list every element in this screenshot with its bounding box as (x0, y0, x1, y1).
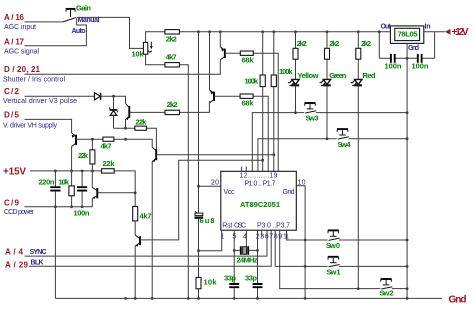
wire +5V rail from trimmer top to 78L05 Out (146, 32, 391, 43)
svg-text:D / 5: D / 5 (4, 111, 20, 120)
junction at (220.3,31.8) (219, 30, 222, 33)
switch Sw4 (337, 129, 351, 149)
resistor R-100k right pull-up (271, 32, 293, 172)
svg-text:100n: 100n (385, 62, 402, 71)
wire C/9 line to Q5 emitter (25, 198, 93, 207)
resistor R-100k left pull-up (245, 32, 266, 172)
svg-text:Gnd: Gnd (449, 295, 467, 306)
resistor R-2k2 green (325, 32, 340, 80)
svg-text:100k: 100k (245, 77, 259, 86)
switch S-Gain lever (63, 18, 76, 22)
svg-text:100n: 100n (74, 209, 90, 218)
LED green (319, 71, 347, 139)
transistor Q5 (92, 171, 135, 199)
junction at (407.1,298.4) (406, 297, 409, 300)
resistor R-10k 15V (59, 171, 75, 207)
wire Sw3 line from MCU P1.0 to gnd column (252, 113, 407, 172)
pin 20 stub to Vcc column (199, 185, 221, 187)
junction at (234.2,250.4) (233, 249, 236, 252)
svg-text:Yellow: Yellow (298, 71, 319, 80)
transistor Q2 (210, 32, 215, 103)
wire trimmer bottom to 4k7 line and down to ground (146, 54, 189, 298)
svg-text:Out: Out (381, 24, 392, 31)
junction at (358.3,31.8) (357, 30, 360, 33)
junction at (125.5,128.2) (124, 127, 127, 130)
capacitor C-220n (39, 171, 61, 299)
svg-text:33p: 33p (245, 274, 257, 283)
wire A/17 lead (25, 45, 87, 47)
pin 10 lead down to ground (296, 186, 305, 299)
resistor R-22k mid (135, 118, 147, 131)
wire Sw0 row from pin 11 to gnd column (287, 230, 408, 240)
svg-text:2k2: 2k2 (329, 39, 339, 48)
svg-text:10k: 10k (132, 50, 145, 59)
svg-text:7: 7 (269, 234, 273, 241)
transistor Q3 (126, 103, 130, 128)
junction at (152.2,298.4) (151, 297, 154, 300)
junction at (198.5,186.3) (197, 185, 200, 188)
pin 4 stub to crystal (245, 230, 247, 246)
transistor QA (72, 133, 76, 171)
wire QA base line with 4k7 to Q3 emitter node (76, 139, 152, 147)
svg-text:12 .........19: 12 .........19 (240, 173, 278, 180)
capacitor C-100n a (385, 54, 402, 71)
wire SYNC line to MCU pin 3 (25, 230, 268, 256)
svg-text:68k: 68k (242, 99, 255, 108)
capacitor C-6u8 (195, 211, 215, 225)
svg-text:Rst: Rst (222, 223, 232, 230)
switch Sw2 (380, 279, 394, 298)
svg-text:In: In (425, 24, 431, 31)
svg-text:Green: Green (329, 71, 346, 80)
resistor R-10k reset (196, 277, 217, 288)
junction at (305.1,240) (304, 239, 307, 242)
wire Q6 base line up and over to MCU column (140, 160, 263, 240)
resistor R-4k7 h (101, 137, 114, 150)
junction at (198.5,298.4) (197, 297, 200, 300)
wire Sw1 row from pin 9 to gnd column (275, 230, 407, 266)
resistor R-4k7 vertical (133, 206, 152, 221)
svg-text:Sw 0: Sw 0 (326, 241, 340, 250)
svg-text:1: 1 (221, 234, 225, 241)
capacitor C-33p right (245, 274, 263, 288)
junction at (198.5,31.8) (197, 30, 200, 33)
svg-text:4k7: 4k7 (140, 212, 152, 221)
svg-text:22k: 22k (135, 118, 147, 127)
wire Q1 base line with 68k to MCU column (225, 53, 278, 171)
svg-text:2k2: 2k2 (297, 39, 307, 48)
pin 3 stub (261, 230, 263, 237)
wire 78L05 decoupling row (379, 32, 434, 59)
junction at (305.1,266.4) (304, 265, 307, 268)
wire Q3 base line with 2k2 to Q2 collector (130, 101, 210, 112)
wire crystal row (234, 249, 257, 251)
junction at (55.4,206.8) (54, 205, 57, 208)
svg-text:8: 8 (274, 234, 278, 241)
wire 78L05 In lead and +12V feed (424, 32, 445, 59)
junction at (379.3,31.8) (378, 30, 381, 33)
junction at (273.8,31.8) (272, 30, 275, 33)
wire zener emitter line with 22k to Q4 base feed (114, 128, 157, 151)
resistor R-2k2 top (165, 30, 180, 44)
node C/9 label (4, 199, 35, 217)
pin 12 stub (241, 167, 243, 172)
svg-text:A / 16: A / 16 (4, 13, 25, 22)
svg-text:220n: 220n (39, 178, 55, 187)
resistor R-22k vertical (78, 139, 95, 171)
junction at (358.3,288.6) (357, 287, 360, 290)
svg-text:SYNC: SYNC (30, 249, 47, 256)
wire 78L05 Gnd column to ground bus (406, 43, 408, 298)
svg-text:Sw 4: Sw 4 (338, 140, 352, 149)
wire Vcc column with 6u8 and 10k to ground (198, 32, 200, 299)
svg-text:A / 29: A / 29 (5, 261, 29, 270)
junction at (262.7,31.8) (261, 30, 264, 33)
svg-text:10k: 10k (59, 178, 70, 187)
resistor R-22k in +15V (102, 159, 116, 173)
junction at (273.8,154.7) (272, 153, 275, 156)
svg-text:Gnd: Gnd (408, 45, 419, 52)
wire BLK line to MCU pin 7 (29, 230, 271, 266)
svg-text:D / 20, 21: D / 20, 21 (4, 65, 41, 74)
pin 13 stub (245, 167, 247, 172)
svg-text:OSC: OSC (234, 223, 246, 230)
resistor R-4k7 top (165, 53, 180, 68)
resistor R-68k 1 (240, 51, 254, 65)
junction at (407.1,58.3) (406, 57, 409, 60)
diode D1 (95, 93, 101, 100)
svg-text:2k2: 2k2 (361, 39, 371, 48)
junction at (327,138.7) (326, 137, 329, 140)
svg-text:Sw 2: Sw 2 (380, 289, 394, 298)
wire Sw4 line from MCU P1.1 to gnd column (258, 139, 407, 172)
svg-text:Sw 1: Sw 1 (327, 268, 341, 277)
junction at (295.5,112.6) (294, 111, 297, 114)
junction at (305.1,298.4) (304, 297, 307, 300)
junction at (198.5,250.7) (197, 249, 200, 252)
wire Auto contact down to A/17 line (77, 18, 87, 45)
capacitor C-33p left (224, 274, 239, 288)
svg-text:Shutter / Iris control: Shutter / Iris control (3, 77, 65, 84)
node A/17 AGC signal label (4, 38, 39, 56)
svg-text:Sw 3: Sw 3 (306, 114, 319, 123)
node A/29 BLK label (5, 260, 44, 270)
svg-text:P1.0 .. P1.7: P1.0 .. P1.7 (245, 181, 276, 188)
svg-text:P3.0 ..P3.7: P3.0 ..P3.7 (257, 223, 290, 230)
resistor R-2k2 red (356, 32, 371, 80)
junction at (125.5,139.2) (124, 138, 127, 141)
svg-text:Gnd: Gnd (283, 189, 295, 196)
junction at (262.7,160.2) (261, 159, 264, 162)
svg-text:Vcc: Vcc (224, 189, 236, 196)
svg-text:2k2: 2k2 (166, 35, 177, 44)
junction at (55.4,170.9) (54, 170, 57, 173)
svg-text:6u8: 6u8 (200, 216, 215, 225)
LED red (350, 71, 376, 289)
junction at (257.5,298.4) (256, 297, 259, 300)
wire Q4 base line to MCU pull-up column (156, 154, 273, 156)
svg-text:CCD power: CCD power (4, 209, 35, 216)
junction at (407.1,138.7) (406, 137, 409, 140)
svg-text:BLK: BLK (31, 260, 44, 267)
junction at (407.1,240) (406, 239, 409, 242)
svg-text:AT89C2051: AT89C2051 (240, 200, 280, 209)
svg-text:Vertical driver V3 pulse: Vertical driver V3 pulse (3, 98, 77, 105)
switch Sw3 (305, 103, 319, 123)
pin 5 column with 33p left to ground (233, 230, 235, 298)
junction at (71.6,206.8) (70, 205, 73, 208)
wire Q2 base line with 68k to MCU column (214, 96, 268, 171)
svg-text:A / 4: A / 4 (5, 248, 24, 257)
regulator U2 78L05 (381, 24, 431, 53)
IC U1 AT89C2051 (211, 171, 306, 240)
svg-text:4k7: 4k7 (166, 53, 177, 62)
junction at (407.1,266.4) (406, 265, 409, 268)
switch Sw1 (327, 257, 341, 277)
switch Sw0 (326, 230, 340, 250)
svg-text:78L05: 78L05 (398, 30, 418, 39)
svg-text:Red: Red (363, 71, 376, 80)
capacitor C-100n 15V (74, 171, 90, 218)
junction at (257.5,250.4) (256, 249, 259, 252)
node A/16 AGC input label (4, 13, 36, 31)
wire A/16 lead (25, 21, 64, 23)
svg-text:3: 3 (260, 234, 264, 241)
wire pin 1 Rst to Vcc column node (199, 230, 222, 251)
junction at (71.6,170.9) (70, 170, 73, 173)
junction at (92.4,139.2) (91, 138, 94, 141)
wire +15V rail through 22k to 4k7 column Q6 (30, 171, 135, 207)
svg-text:24MHz: 24MHz (237, 256, 258, 265)
crystal X1 24MHz (237, 246, 258, 264)
resistor R-2k2 base (165, 100, 180, 115)
junction at (209.5,31.8) (208, 30, 211, 33)
zener diode ZD1 (110, 96, 118, 128)
svg-text:10k: 10k (204, 278, 218, 287)
node D/5 label (3, 111, 58, 130)
svg-text:22k: 22k (78, 151, 89, 160)
junction at (407.1,112.6) (406, 111, 409, 114)
capacitor C-100n b (412, 54, 429, 71)
transistor Q6 (135, 221, 140, 299)
switch S-Gain actuator (66, 8, 76, 10)
junction at (327,31.8) (326, 30, 329, 33)
wire ground bus (55, 297, 442, 299)
resistor R-68k 2 (240, 94, 254, 108)
svg-text:A / 17: A / 17 (4, 38, 25, 47)
svg-text:6: 6 (265, 234, 269, 241)
svg-text:100n: 100n (412, 62, 429, 71)
pin 2 column with 33p right to ground (257, 230, 259, 298)
svg-text:2k2: 2k2 (167, 100, 178, 109)
transistor Q1 (220, 32, 225, 60)
junction at (295.5,31.8) (294, 30, 297, 33)
node D/20,21 Shutter label (3, 65, 65, 84)
svg-text:Auto: Auto (72, 28, 86, 35)
transistor Q4 (152, 147, 156, 298)
wire Sw2 row from pin 8 to gnd column (280, 230, 407, 288)
svg-text:Gain: Gain (76, 4, 91, 13)
junction at (113.5,96.2) (112, 95, 115, 98)
junction at (407.1,288.6) (406, 287, 409, 290)
node C/2 label (3, 87, 77, 105)
svg-text:AGC input: AGC input (4, 24, 36, 31)
wire D/5 line down to QA emitter (25, 119, 72, 133)
svg-text:100k: 100k (279, 67, 293, 76)
node A/4 SYNC label (5, 248, 47, 257)
svg-text:V. driver VH supply: V. driver VH supply (3, 122, 58, 129)
junction at (135.2,298.4) (134, 297, 137, 300)
LED yellow (288, 71, 319, 113)
svg-text:22k: 22k (103, 159, 116, 168)
svg-text:+12V: +12V (452, 27, 469, 38)
junction at (135.2,192.8) (134, 191, 137, 194)
wire Shutter/Iris line to Q1 collector (25, 60, 221, 75)
trimmer R-10k body (132, 42, 153, 59)
wire Manual contact to trimmer wiper (77, 17, 144, 48)
svg-text:Manual: Manual (78, 17, 100, 24)
junction at (125.5,298.4) (124, 297, 127, 300)
svg-text:33p: 33p (224, 274, 236, 283)
junction at (188.3,298.4) (187, 297, 190, 300)
node +12V label with arrow (445, 27, 469, 38)
junction at (234.2,298.4) (233, 297, 236, 300)
junction at (82.1,206.8) (81, 205, 84, 208)
resistor R-2k2 yellow (293, 32, 307, 80)
svg-text:+15V: +15V (3, 167, 26, 178)
wire C/2 line (25, 96, 126, 103)
svg-text:68k: 68k (242, 56, 255, 65)
svg-text:9: 9 (278, 234, 282, 241)
svg-text:AGC signal: AGC signal (4, 49, 39, 56)
svg-text:20: 20 (211, 180, 219, 187)
junction at (82.1,170.9) (81, 170, 84, 173)
svg-text:C / 2: C / 2 (4, 87, 20, 96)
junction at (92.4,170.9) (91, 170, 94, 173)
svg-text:C / 9: C / 9 (4, 199, 20, 208)
svg-text:4k7: 4k7 (101, 142, 112, 151)
